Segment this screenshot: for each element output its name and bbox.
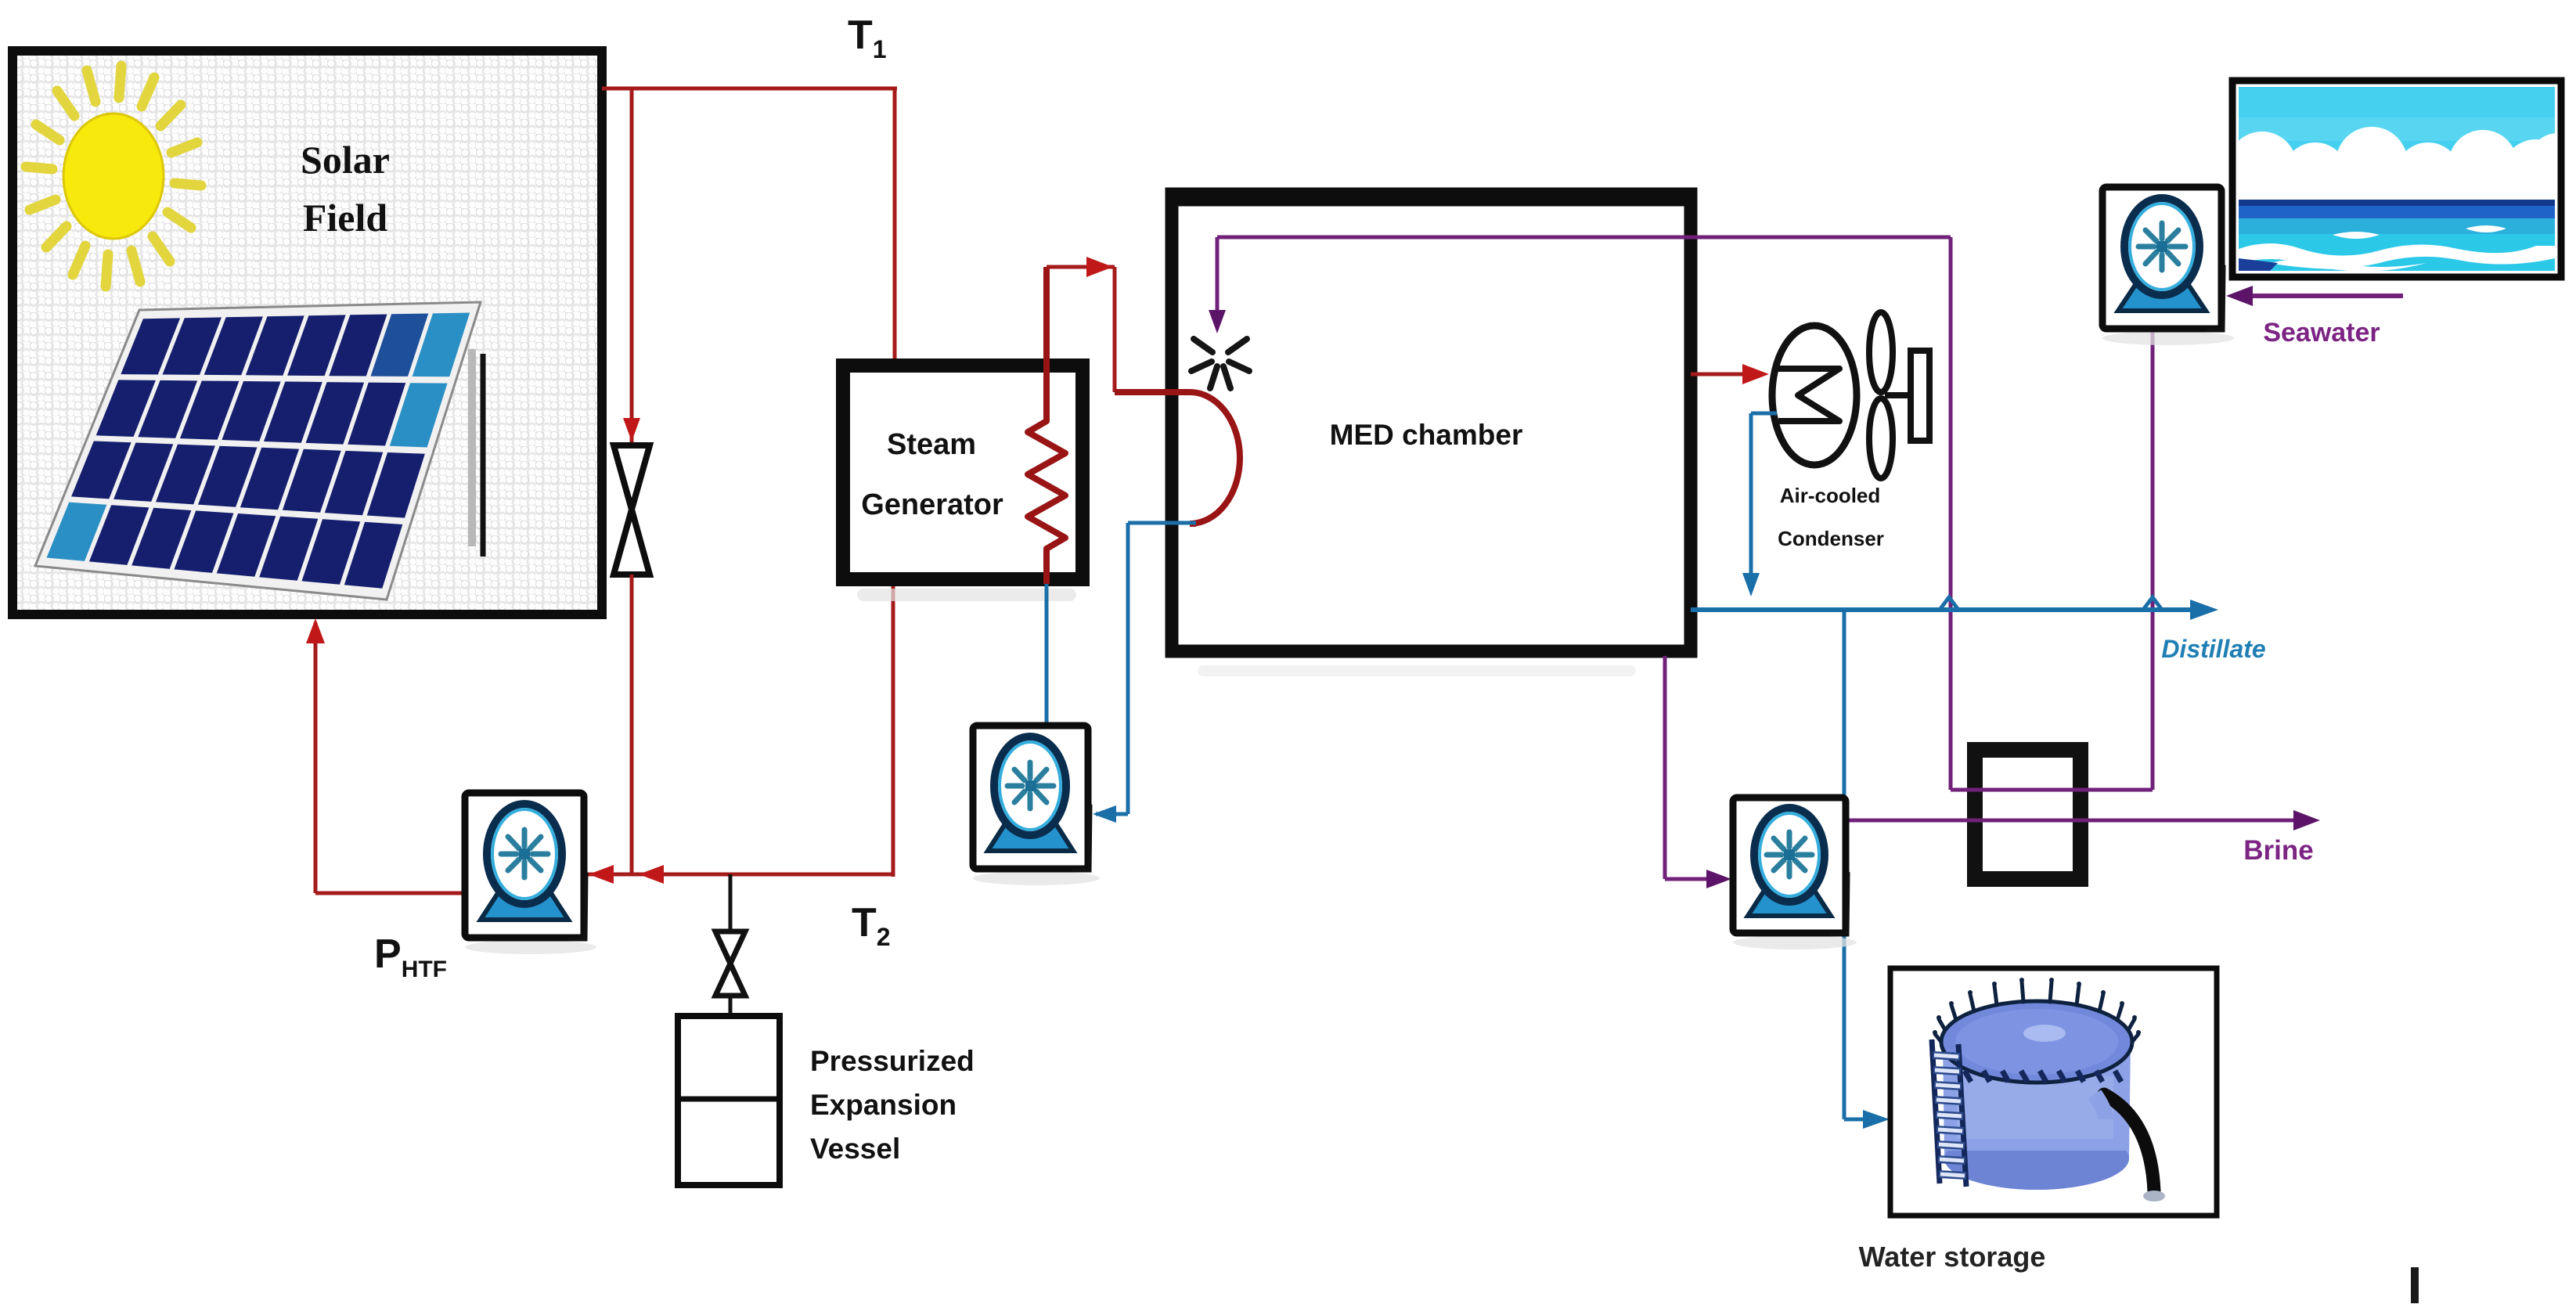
wire: valve to T2 line	[630, 575, 634, 874]
wire: brine from MED bottom	[1663, 656, 1667, 879]
pump P_HTF	[465, 793, 596, 954]
pump brine	[1733, 798, 1857, 949]
wire: T2 horizontal into pump PHTF	[581, 873, 893, 877]
svg-text:Pressurized: Pressurized	[810, 1045, 975, 1077]
solar panel	[35, 302, 483, 600]
condenser fan	[1869, 312, 1893, 392]
water tank	[1932, 978, 2165, 1202]
svg-text:Air-cooled: Air-cooled	[1780, 484, 1881, 507]
steam generator box	[857, 589, 1076, 601]
wire: feed pump to steam generator	[1045, 584, 1049, 726]
wire: distillate header	[1691, 607, 2192, 612]
air-cooled condenser	[1772, 326, 1857, 465]
steam U-tube in MED	[1115, 392, 1240, 524]
svg-text:Field: Field	[303, 196, 388, 240]
svg-text:Seawater: Seawater	[2263, 318, 2380, 348]
svg-text:Generator: Generator	[861, 488, 1003, 521]
wire: T1 down to steam generator	[893, 88, 897, 366]
svg-text:Vessel: Vessel	[810, 1133, 900, 1165]
pressurized expansion vessel	[678, 1016, 780, 1185]
water storage box	[1890, 968, 2217, 1216]
wire: brine discharge	[1846, 819, 2293, 823]
wire: seawater through heat exchanger (over box)	[1951, 788, 2153, 792]
svg-text:Water storage: Water storage	[1859, 1241, 2046, 1273]
wire: seawater feed riser	[1949, 237, 1953, 790]
svg-text:Distillate: Distillate	[2161, 635, 2265, 663]
wire: branch down to valve	[630, 88, 634, 448]
wire: vapor to condenser	[1691, 373, 1744, 376]
valve V1	[614, 445, 650, 510]
MED chamber box	[1198, 665, 1636, 676]
wire: seawater feed line across MED top	[1217, 236, 1951, 240]
wire: seawater intake	[2250, 294, 2403, 298]
wire: pump PHTF outlet to solar field return	[315, 892, 467, 895]
cursor mark	[2411, 1267, 2419, 1303]
heat exchanger	[1975, 750, 2081, 879]
svg-text:Brine: Brine	[2243, 835, 2313, 866]
pump seawater	[2102, 187, 2234, 345]
wire: branch to expansion vessel	[729, 874, 733, 931]
wire: seawater feed into nozzle	[1216, 237, 1220, 313]
svg-text:Expansion: Expansion	[810, 1089, 957, 1121]
wire: steam out of generator	[1047, 265, 1115, 269]
wire: seawater through heat exchanger	[1951, 788, 2153, 792]
sun	[26, 66, 201, 286]
valve V2	[715, 931, 745, 964]
wire: distillate to storage	[1843, 610, 1846, 1119]
spray nozzle	[1191, 339, 1249, 388]
svg-text:Steam: Steam	[887, 428, 976, 461]
pump feed	[973, 726, 1100, 885]
resistor heating coil	[1028, 267, 1065, 584]
solar field box	[13, 51, 602, 614]
wire: seawater from pump down	[2151, 329, 2155, 790]
svg-text:Solar: Solar	[301, 138, 390, 182]
wire: condenser drain	[1751, 412, 1777, 416]
svg-text:Condenser: Condenser	[1778, 527, 1884, 550]
wire: steam gen bottom to T2 corner	[892, 579, 895, 877]
svg-text:MED chamber: MED chamber	[1330, 419, 1523, 451]
wire: condensate return from MED to feed pump	[1128, 521, 1196, 525]
wire: solar outlet to T1 corner	[602, 87, 897, 91]
